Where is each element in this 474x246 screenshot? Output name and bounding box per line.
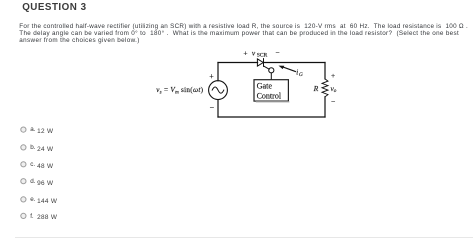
gate current arrow iG: [279, 66, 303, 79]
SCR thyristor symbol: [257, 59, 274, 80]
gate control box shadow: [257, 101, 289, 103]
question body text: [19, 23, 468, 44]
wire left vertical lower: [217, 100, 219, 117]
wire top left segment: [218, 62, 258, 64]
wire right vertical upper: [324, 63, 326, 79]
resistor R: [322, 79, 328, 97]
label + vSCR -: [243, 48, 279, 58]
AC source sine: [212, 87, 224, 93]
wire bottom: [218, 116, 325, 118]
gate control box: [254, 80, 288, 101]
wire right vertical lower: [324, 97, 326, 117]
question header: [22, 2, 86, 13]
AC source: [209, 81, 228, 100]
wire top right segment: [264, 62, 326, 64]
gate control box text: [257, 82, 282, 101]
bottom divider: [15, 237, 473, 238]
wire left vertical upper: [217, 63, 219, 81]
